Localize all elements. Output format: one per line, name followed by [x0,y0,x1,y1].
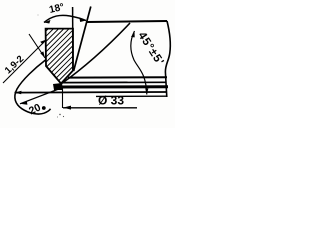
thick seam line L3 [56,85,168,88]
diameter extension line [62,88,64,108]
arrow bottom of 45deg arc [145,88,148,94]
svg-text:Ø 33: Ø 33 [98,94,124,108]
45deg dimension arc [131,31,147,95]
block outline [46,29,73,84]
arrow of 1,9-2 leader [40,40,46,45]
stack line L4 [15,91,168,94]
arrow left end of 18deg arc [44,20,51,24]
arrow top of 45deg arc [131,31,135,37]
arrow of diameter dimension [63,106,71,110]
18deg dimension arc [44,15,86,22]
degree dot of 20deg [42,106,46,110]
stack line L5 [96,95,167,97]
slanted 18deg edge line [74,7,91,72]
arrow of second leader [40,51,45,58]
top surface line [87,21,167,22]
vertical extension line / block right edge [72,7,74,70]
hatch lines [0,20,135,100]
hatched block body [0,20,135,100]
root blob [53,83,63,90]
1,9-2 leader line [3,40,47,84]
arrow at left end of 20deg horizontal side [15,91,22,95]
diameter dimension line [63,107,137,109]
20deg diagonal side [20,89,60,104]
stack line L1 [68,76,167,78]
arrow right end of 18deg arc [79,18,86,22]
right wavy break edge [165,21,170,97]
arrow at left end of 20deg diagonal [20,101,27,104]
second leader line [29,34,45,58]
big detail arc around 20deg [15,60,51,114]
stack line L2 [63,81,166,83]
45deg chamfer line [61,23,130,84]
speckles [59,114,60,115]
